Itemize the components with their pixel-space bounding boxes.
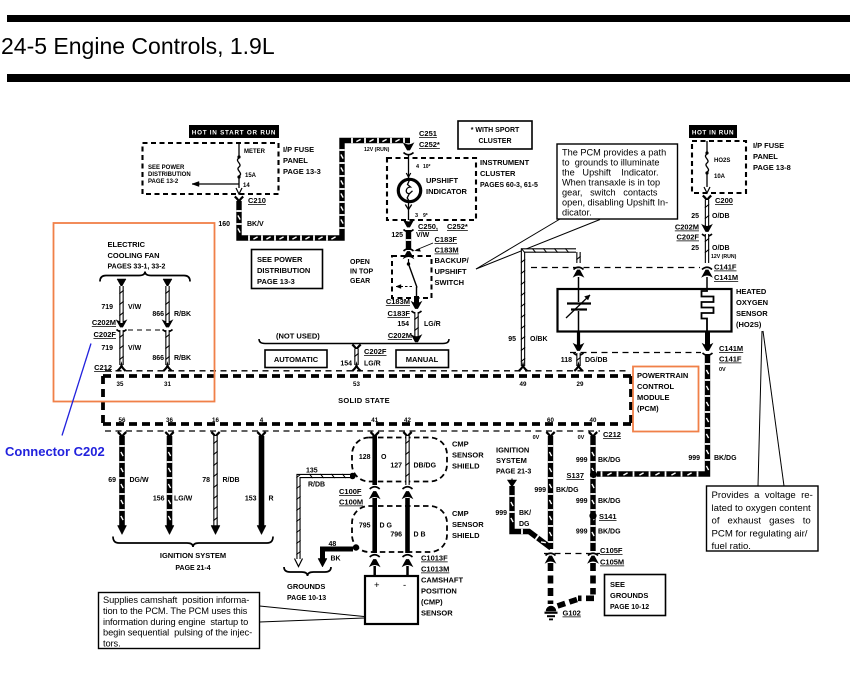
svg-text:V/W: V/W (416, 232, 430, 239)
svg-text:SOLID STATE: SOLID STATE (338, 396, 390, 405)
svg-text:C105M: C105M (600, 558, 624, 567)
svg-text:C100F: C100F (339, 487, 362, 496)
svg-text:C183F: C183F (387, 309, 410, 318)
svg-text:SENSOR: SENSOR (452, 451, 484, 460)
svg-text:SENSOR: SENSOR (736, 309, 768, 318)
svg-text:PANEL: PANEL (283, 156, 308, 165)
svg-text:HOT IN START OR RUN: HOT IN START OR RUN (192, 130, 276, 137)
svg-text:open, disabling Upshift In-: open, disabling Upshift In- (562, 198, 668, 208)
svg-text:0V: 0V (533, 435, 540, 441)
svg-text:154: 154 (397, 321, 409, 328)
svg-text:SYSTEM: SYSTEM (496, 456, 527, 465)
svg-text:15A: 15A (245, 173, 257, 179)
svg-text:tors.: tors. (103, 639, 121, 649)
svg-text:MANUAL: MANUAL (406, 355, 439, 364)
svg-text:BK/DG: BK/DG (556, 487, 579, 494)
svg-text:BK/DG: BK/DG (598, 457, 621, 464)
svg-text:4: 4 (260, 417, 264, 424)
svg-text:PAGE 21-4: PAGE 21-4 (175, 565, 210, 572)
svg-text:GEAR: GEAR (350, 278, 370, 285)
svg-text:O/DB: O/DB (712, 213, 730, 220)
svg-text:SEE POWER: SEE POWER (148, 165, 185, 171)
svg-text:V/W: V/W (128, 345, 142, 352)
svg-text:When transaxle is in top: When transaxle is in top (562, 178, 660, 188)
svg-text:PAGES 33-1, 33-2: PAGES 33-1, 33-2 (108, 264, 166, 271)
svg-text:ELECTRIC: ELECTRIC (108, 240, 146, 249)
svg-text:69: 69 (108, 477, 116, 484)
svg-text:C202F: C202F (364, 347, 387, 356)
svg-text:C183F: C183F (435, 235, 458, 244)
svg-text:O/DB: O/DB (712, 245, 730, 252)
svg-text:60: 60 (547, 417, 554, 424)
svg-text:C212: C212 (603, 430, 621, 439)
svg-text:SWITCH: SWITCH (435, 278, 465, 287)
svg-text:56: 56 (119, 417, 126, 424)
svg-text:to grounds to illuminate: to grounds to illuminate (562, 158, 660, 168)
svg-text:MODULE: MODULE (637, 393, 670, 402)
svg-text:999: 999 (495, 510, 507, 517)
svg-text:The PCM provides a path: The PCM provides a path (562, 148, 666, 158)
svg-text:METER: METER (244, 149, 266, 155)
svg-text:DG: DG (519, 521, 530, 528)
svg-text:fuel ratio.: fuel ratio. (712, 541, 751, 552)
svg-text:of exhaust gases to: of exhaust gases to (712, 516, 811, 527)
svg-text:BACKUP/: BACKUP/ (435, 256, 470, 265)
svg-text:35: 35 (117, 381, 124, 388)
svg-text:PAGE 21-3: PAGE 21-3 (496, 469, 531, 476)
svg-text:C1013F: C1013F (421, 554, 448, 563)
svg-text:C250,: C250, (418, 222, 438, 231)
svg-text:31: 31 (164, 381, 171, 388)
svg-text:GROUNDS: GROUNDS (610, 591, 648, 600)
svg-text:78: 78 (202, 477, 210, 484)
svg-text:PAGES 60-3, 61-5: PAGES 60-3, 61-5 (480, 182, 538, 189)
svg-text:UPSHIFT: UPSHIFT (426, 176, 459, 185)
svg-text:C202M: C202M (675, 223, 699, 232)
svg-text:GROUNDS: GROUNDS (287, 582, 325, 591)
svg-text:information during engine sta: information during engine startup to (103, 617, 248, 627)
svg-text:719: 719 (101, 345, 113, 352)
svg-text:C202M: C202M (388, 331, 412, 340)
svg-text:C141F: C141F (719, 355, 742, 364)
svg-text:BK/DG: BK/DG (598, 498, 621, 505)
svg-text:Connector C202: Connector C202 (5, 444, 105, 459)
svg-text:IGNITION: IGNITION (496, 446, 529, 455)
svg-text:C212: C212 (94, 363, 112, 372)
svg-text:0V: 0V (719, 367, 726, 373)
svg-text:R: R (269, 496, 274, 503)
svg-text:0V: 0V (578, 435, 585, 441)
svg-text:PAGE 13-3: PAGE 13-3 (283, 167, 321, 176)
svg-text:HOT IN RUN: HOT IN RUN (692, 130, 734, 137)
svg-text:154: 154 (340, 361, 352, 368)
svg-text:CONTROL: CONTROL (637, 382, 674, 391)
svg-text:BK/: BK/ (519, 510, 531, 517)
svg-text:16: 16 (212, 417, 219, 424)
svg-text:118: 118 (561, 357, 572, 364)
svg-text:12V (RUN): 12V (RUN) (364, 147, 390, 153)
svg-text:D G: D G (380, 523, 393, 530)
svg-text:C202F: C202F (93, 330, 116, 339)
svg-text:BK/DG: BK/DG (598, 529, 621, 536)
svg-text:gear, switch contacts: gear, switch contacts (562, 188, 658, 198)
svg-text:C183M: C183M (386, 297, 410, 306)
svg-text:95: 95 (508, 336, 516, 343)
svg-text:48: 48 (329, 541, 337, 548)
svg-text:tion to the PCM. The PCM uses: tion to the PCM. The PCM uses this (103, 606, 248, 616)
svg-text:PAGE 13-3: PAGE 13-3 (257, 277, 295, 286)
svg-text:dicator.: dicator. (562, 208, 592, 218)
svg-text:D B: D B (414, 532, 426, 539)
svg-text:PAGE 10-12: PAGE 10-12 (610, 604, 649, 611)
svg-text:-: - (403, 580, 406, 591)
svg-text:49: 49 (520, 381, 527, 388)
svg-text:C202M: C202M (92, 318, 116, 327)
svg-text:I/P FUSE: I/P FUSE (283, 145, 314, 154)
svg-text:V/W: V/W (128, 304, 142, 311)
svg-text:SENSOR: SENSOR (452, 520, 484, 529)
svg-text:40: 40 (590, 417, 597, 424)
svg-text:(CMP): (CMP) (421, 598, 443, 607)
svg-text:C202F: C202F (676, 233, 699, 242)
svg-text:R/DB: R/DB (223, 477, 240, 484)
svg-text:the Upshift Indicator.: the Upshift Indicator. (562, 168, 659, 178)
svg-text:SHIELD: SHIELD (452, 462, 480, 471)
svg-text:CMP: CMP (452, 440, 469, 449)
svg-text:C251: C251 (419, 129, 437, 138)
svg-text:C1013M: C1013M (421, 565, 449, 574)
svg-text:999: 999 (576, 498, 588, 505)
svg-text:DG/DB: DG/DB (585, 357, 608, 364)
svg-text:24-5 Engine Controls, 1.9L: 24-5 Engine Controls, 1.9L (1, 33, 275, 59)
svg-text:128: 128 (359, 454, 371, 461)
svg-text:LG/R: LG/R (424, 321, 441, 328)
svg-text:10*: 10* (423, 164, 431, 170)
svg-text:CAMSHAFT: CAMSHAFT (421, 576, 463, 585)
svg-text:SHIELD: SHIELD (452, 531, 480, 540)
svg-text:UPSHIFT: UPSHIFT (435, 267, 468, 276)
svg-text:+: + (374, 580, 380, 591)
svg-text:PAGE 13-8: PAGE 13-8 (753, 163, 791, 172)
svg-text:POSITION: POSITION (421, 587, 457, 596)
svg-text:999: 999 (688, 455, 700, 462)
svg-text:Provides a voltage re-: Provides a voltage re- (712, 490, 813, 501)
svg-text:lated to oxygen content: lated to oxygen content (712, 503, 812, 514)
svg-text:SENSOR: SENSOR (421, 609, 453, 618)
svg-text:R/BK: R/BK (174, 311, 191, 318)
svg-text:S141: S141 (599, 512, 617, 521)
svg-text:OPEN: OPEN (350, 259, 370, 266)
svg-text:160: 160 (218, 221, 230, 228)
svg-text:BK/V: BK/V (247, 221, 264, 228)
svg-text:HO2S: HO2S (714, 158, 730, 164)
svg-text:COOLING FAN: COOLING FAN (108, 251, 160, 260)
svg-text:153: 153 (245, 496, 257, 503)
svg-text:999: 999 (576, 457, 588, 464)
svg-text:795: 795 (359, 523, 371, 530)
svg-text:CLUSTER: CLUSTER (478, 138, 511, 145)
svg-text:LG/W: LG/W (174, 496, 193, 503)
svg-text:999: 999 (576, 529, 588, 536)
svg-text:29: 29 (577, 381, 584, 388)
svg-text:OXYGEN: OXYGEN (736, 298, 768, 307)
svg-text:PAGE 13-2: PAGE 13-2 (148, 179, 179, 185)
svg-text:C200: C200 (715, 196, 733, 205)
svg-text:DG/W: DG/W (130, 477, 149, 484)
svg-text:DISTRIBUTION: DISTRIBUTION (148, 172, 191, 178)
svg-text:C141F: C141F (714, 263, 737, 272)
svg-text:796: 796 (390, 532, 402, 539)
svg-text:(PCM): (PCM) (637, 404, 659, 413)
svg-text:53: 53 (353, 381, 360, 388)
svg-text:DB/DG: DB/DG (414, 463, 437, 470)
svg-text:BK/DG: BK/DG (714, 455, 737, 462)
svg-text:BK: BK (331, 556, 341, 563)
svg-text:10A: 10A (714, 174, 726, 180)
svg-text:R/BK: R/BK (174, 355, 191, 362)
svg-text:HEATED: HEATED (736, 287, 767, 296)
svg-text:(HO2S): (HO2S) (736, 320, 762, 329)
svg-text:999: 999 (534, 487, 546, 494)
svg-text:* WITH SPORT: * WITH SPORT (471, 127, 520, 134)
svg-text:I/P FUSE: I/P FUSE (753, 141, 784, 150)
svg-text:135: 135 (306, 468, 318, 475)
svg-text:C141M: C141M (719, 344, 743, 353)
svg-text:AUTOMATIC: AUTOMATIC (274, 355, 319, 364)
svg-text:36: 36 (166, 417, 173, 424)
svg-text:INSTRUMENT: INSTRUMENT (480, 158, 530, 167)
svg-text:25: 25 (691, 213, 699, 220)
svg-text:125: 125 (391, 232, 403, 239)
svg-text:12V (RUN): 12V (RUN) (711, 254, 737, 260)
svg-text:C210: C210 (248, 196, 266, 205)
svg-text:O/BK: O/BK (530, 336, 548, 343)
svg-text:INDICATOR: INDICATOR (426, 187, 468, 196)
svg-text:R/DB: R/DB (308, 482, 325, 489)
svg-text:PAGE 10-13: PAGE 10-13 (287, 595, 326, 602)
svg-text:begin sequential pulsing of t: begin sequential pulsing of the injec- (103, 628, 252, 638)
svg-text:127: 127 (390, 463, 402, 470)
svg-text:(NOT USED): (NOT USED) (276, 332, 320, 341)
svg-text:42: 42 (404, 417, 411, 424)
svg-text:C183M: C183M (435, 246, 459, 255)
svg-text:DISTRIBUTION: DISTRIBUTION (257, 266, 310, 275)
svg-text:C100M: C100M (339, 498, 363, 507)
svg-text:14: 14 (243, 183, 250, 189)
svg-text:IGNITION SYSTEM: IGNITION SYSTEM (160, 551, 226, 560)
svg-text:G102: G102 (563, 609, 581, 618)
svg-text:POWERTRAIN: POWERTRAIN (637, 371, 688, 380)
svg-text:Supplies camshaft position in: Supplies camshaft position informa- (103, 595, 249, 605)
svg-text:41: 41 (371, 417, 378, 424)
svg-text:3: 3 (415, 213, 418, 219)
svg-text:CMP: CMP (452, 509, 469, 518)
svg-text:C252*: C252* (419, 140, 440, 149)
svg-text:719: 719 (101, 304, 113, 311)
svg-text:IN TOP: IN TOP (350, 269, 374, 276)
svg-text:S137: S137 (566, 471, 584, 480)
svg-text:C105F: C105F (600, 546, 623, 555)
svg-text:C141M: C141M (714, 273, 738, 282)
svg-text:PANEL: PANEL (753, 152, 778, 161)
svg-text:25: 25 (691, 245, 699, 252)
svg-text:O: O (381, 454, 387, 461)
svg-text:LG/R: LG/R (364, 361, 381, 368)
svg-text:9*: 9* (423, 213, 428, 219)
svg-text:866: 866 (152, 355, 164, 362)
svg-text:SEE POWER: SEE POWER (257, 255, 303, 264)
svg-text:C252*: C252* (447, 222, 468, 231)
svg-text:156: 156 (153, 496, 165, 503)
svg-text:SEE: SEE (610, 580, 625, 589)
svg-text:CLUSTER: CLUSTER (480, 169, 516, 178)
svg-text:PCM for regulating air/: PCM for regulating air/ (712, 528, 808, 539)
svg-text:866: 866 (152, 311, 164, 318)
